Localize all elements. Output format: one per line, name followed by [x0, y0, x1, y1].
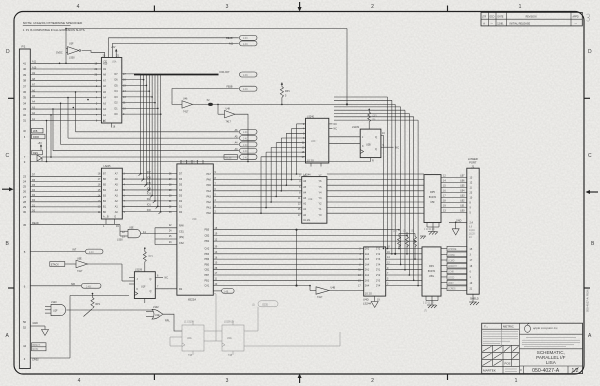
VIA select wires [155, 228, 177, 245]
ETACK buffer U5E 7417 [50, 258, 135, 282]
svg-text:050-4027-A REV A: 050-4027-A REV A [586, 287, 590, 312]
svg-text:44: 44 [23, 344, 27, 348]
bus drop wire 5 [334, 114, 409, 276]
IO0-IO7 flag [220, 70, 258, 77]
svg-text:7417: 7417 [317, 296, 323, 299]
svg-text:27: 27 [23, 195, 27, 199]
svg-text:2Y4: 2Y4 [376, 285, 381, 288]
svg-text:LS109 (3): LS109 (3) [224, 322, 234, 324]
svg-text:1G 2G: 1G 2G [365, 293, 372, 296]
svg-text:U2F: U2F [53, 310, 58, 313]
wire LB3 to J1 [441, 195, 473, 200]
svg-text:CB2: CB2 [205, 234, 210, 237]
buffer U46 7417 [182, 98, 395, 114]
flag LBSY [441, 280, 473, 285]
svg-text:2Y1: 2Y1 [376, 269, 381, 272]
svg-text:LOWER: LOWER [468, 157, 478, 161]
ROM output D6 wire [115, 75, 145, 180]
wire PB upper 1 [213, 235, 408, 237]
svg-text:2-4C: 2-4C [243, 38, 248, 40]
LS240 input tap wire 7 [261, 157, 305, 213]
svg-text:PA3: PA3 [207, 195, 212, 198]
svg-text:RP4: RP4 [429, 265, 434, 268]
svg-text:CS2: CS2 [179, 242, 184, 245]
svg-text:METRIC: METRIC [503, 325, 514, 329]
svg-text:NC: NC [396, 146, 400, 149]
svg-text:1G 2G: 1G 2G [303, 219, 310, 222]
svg-text:LCHK: LCHK [448, 272, 455, 274]
left/right zone ticks [8, 98, 590, 288]
svg-text:P1: P1 [22, 45, 26, 49]
wire top bus to U2B [66, 29, 347, 105]
svg-text:26: 26 [23, 190, 27, 194]
svg-text:INITIAL RELEASE: INITIAL RELEASE [510, 22, 531, 25]
svg-text:U1E: U1E [155, 314, 160, 317]
svg-text:SVDC: SVDC [56, 52, 63, 55]
svg-text:RPL: RPL [165, 320, 170, 323]
svg-text:29: 29 [23, 205, 27, 209]
wire PB lower 6 [213, 279, 363, 281]
wire LB5 to J1 [441, 185, 473, 190]
svg-text:CA2: CA2 [205, 248, 210, 251]
svg-text:2A3: 2A3 [365, 279, 370, 282]
svg-text:LB3: LB3 [460, 195, 465, 198]
wire PA4 [213, 190, 301, 192]
svg-text:LS109: LS109 [352, 126, 360, 129]
svg-text:32: 32 [23, 113, 27, 117]
svg-text:2FB: 2FB [33, 130, 38, 133]
svg-text:RP5: RP5 [430, 191, 435, 194]
microfilm label right edge [586, 287, 590, 312]
svg-text:LPARITY: LPARITY [448, 265, 458, 268]
ROM output D0 wire [115, 75, 162, 213]
svg-text:36: 36 [23, 90, 27, 94]
svg-text:A11: A11 [229, 43, 234, 46]
svg-text:U3E: U3E [129, 226, 134, 229]
svg-text:PA1: PA1 [207, 207, 212, 210]
svg-text:NC: NC [334, 123, 338, 126]
svg-text:IO0-IO7: IO0-IO7 [220, 70, 230, 74]
svg-text:R/W: R/W [179, 225, 184, 228]
PB vertical link [296, 229, 298, 287]
svg-text:MARTEK: MARTEK [483, 369, 497, 373]
svg-text:LS244: LS244 [363, 301, 372, 305]
wire PB lower 2 [213, 258, 363, 260]
svg-text:T1B: T1B [188, 355, 193, 357]
svg-text:LCRES: LCRES [448, 289, 456, 291]
gate U3F LS00 (top) [56, 29, 81, 65]
wire IO7 [122, 171, 177, 176]
svg-text:24: 24 [23, 180, 27, 184]
svg-text:LISA: LISA [546, 360, 557, 365]
VIA U3D 6522A [177, 160, 218, 302]
svg-text:PB7: PB7 [205, 274, 210, 277]
svg-text:A10: A10 [103, 62, 108, 65]
wire LD0 to RP5 [327, 212, 424, 214]
svg-text:1 10 11 20: 1 10 11 20 [424, 229, 435, 231]
wire PA1 [213, 207, 301, 209]
svg-text:52: 52 [23, 326, 27, 330]
wire U3F output to ROM CE [82, 51, 105, 58]
svg-text:14,16: 14,16 [469, 230, 475, 232]
svg-text:6522A: 6522A [188, 298, 196, 302]
stamp mark near rev table [587, 14, 590, 21]
svg-text:IO7: IO7 [147, 171, 152, 174]
svg-text:U5F: U5F [430, 201, 435, 204]
svg-text:2-4C: 2-4C [243, 145, 248, 147]
svg-text:(2F): (2F) [373, 116, 377, 118]
svg-text:LB2: LB2 [460, 200, 465, 203]
svg-text:2-4C: 2-4C [243, 151, 248, 153]
svg-text:2-4C: 2-4C [243, 138, 248, 140]
svg-text:Q: Q [150, 278, 152, 281]
svg-text:8X47Ω: 8X47Ω [429, 196, 437, 199]
svg-text:3: 3 [226, 4, 229, 10]
svg-text:REVISION: REVISION [526, 16, 537, 18]
chassis mark near RP6 [420, 236, 426, 239]
chassis ground under RP5 [427, 227, 439, 235]
wire PB lower 3 [213, 263, 363, 265]
wire PB lower 7 [213, 285, 310, 287]
svg-text:NC51: NC51 [33, 349, 40, 351]
wire U4D out 7 [386, 285, 422, 287]
svg-text:IO3: IO3 [147, 193, 152, 196]
P1 pin 3 wire [24, 160, 371, 164]
svg-text:CPΦ2: CPΦ2 [32, 359, 39, 362]
svg-text:D: D [6, 49, 10, 55]
svg-text:LS109: LS109 [135, 269, 143, 272]
svg-text:34: 34 [23, 101, 27, 105]
buffer U48 7417 [217, 104, 249, 163]
wire IO6 [122, 176, 177, 181]
zone numbers top [77, 4, 522, 10]
ROM U3A [95, 46, 122, 129]
svg-text:DIOR: DIOR [33, 136, 39, 139]
P1 pin 34 / address wire A4 [23, 101, 101, 106]
P1 CPO2 wire [24, 296, 129, 362]
svg-text:1A4: 1A4 [365, 263, 370, 266]
svg-text:apple computer inc.: apple computer inc. [533, 326, 558, 330]
svg-text:LTR: LTR [482, 16, 486, 18]
svg-text:LS20: LS20 [51, 301, 57, 304]
svg-text:U1F: U1F [141, 286, 146, 289]
wire IO5 [122, 182, 177, 187]
ferrite bead X2 [207, 99, 213, 106]
wire PB lower 0 [213, 248, 363, 250]
P1 boxed label DIOR [24, 134, 45, 139]
gate U1E LS02 [146, 306, 182, 331]
svg-text:(7): (7) [424, 311, 427, 313]
ROM output D2 wire [115, 75, 156, 202]
buffer U4D LS244 [358, 246, 390, 306]
svg-text:2: 2 [371, 378, 374, 384]
svg-text:U3A: U3A [112, 60, 117, 63]
svg-text:Q: Q [150, 290, 152, 293]
svg-text:(3): (3) [403, 231, 406, 233]
RES box [32, 150, 43, 161]
svg-text:28: 28 [23, 200, 27, 204]
svg-text:2A2: 2A2 [365, 274, 370, 277]
bus drop wire 7 [334, 120, 418, 286]
svg-text:IO6: IO6 [147, 176, 152, 179]
P1 pin 33 / address wire A3 [23, 106, 101, 111]
pull-up resistors RP6 [393, 231, 417, 260]
wire LD3 to RP5 [327, 195, 424, 197]
svg-text:DATE: DATE [498, 15, 504, 18]
svg-text:50: 50 [23, 320, 27, 324]
faint flip-flop U2G block 2 [222, 321, 244, 357]
svg-text:+5V: +5V [111, 46, 116, 49]
svg-text:PB5: PB5 [205, 229, 210, 232]
wire PA5 [213, 184, 301, 186]
revision table [481, 12, 582, 26]
P1 pin 32 / address wire A2 [23, 112, 101, 117]
wire U4D out 5 [386, 274, 422, 276]
svg-text:Q: Q [375, 136, 377, 139]
svg-text:IO0: IO0 [147, 209, 152, 212]
wire U4D out 0 [386, 248, 422, 250]
ROM output D4 wire [115, 75, 151, 191]
P1 pin 30 / data wire D0 [23, 209, 101, 214]
wire IO0 [122, 209, 177, 214]
svg-text:FB3B: FB3B [227, 86, 233, 89]
ground under U4D [371, 296, 380, 307]
svg-text:(RS): (RS) [179, 236, 184, 239]
svg-text:PA7: PA7 [207, 173, 212, 176]
svg-text:C: C [588, 153, 592, 159]
svg-text:11: 11 [143, 230, 146, 234]
wire PB lower 4 [213, 269, 363, 271]
svg-text:U2B: U2B [366, 144, 371, 147]
svg-text:2-3C: 2-3C [243, 89, 248, 91]
svg-text:NOTE: UNLESS OTHERWISE SPECIFI: NOTE: UNLESS OTHERWISE SPECIFIED [23, 21, 83, 25]
svg-text:2-4C: 2-4C [243, 157, 248, 159]
svg-text:1: 1 [519, 4, 522, 10]
LS240 input tap wire 3 [281, 138, 305, 191]
flip-flop U2B LS109 [329, 108, 399, 249]
svg-text:U4C: U4C [311, 141, 316, 143]
svg-text:4: 4 [78, 378, 81, 384]
svg-text:LBSY: LBSY [448, 283, 454, 285]
P1 pin 24 / data wire D6 [23, 179, 101, 184]
svg-text:1A3: 1A3 [365, 258, 370, 261]
resistor RP1 (top) [280, 82, 290, 105]
svg-text:PORT: PORT [469, 161, 477, 165]
svg-text:18,20: 18,20 [469, 234, 475, 236]
svg-text:45: 45 [23, 223, 27, 227]
svg-text:CE3D: CE3D [262, 304, 268, 306]
svg-text:PA5: PA5 [207, 184, 212, 187]
P1 pin 25 / data wire D5 [23, 184, 101, 189]
zone numbers bottom [78, 378, 518, 384]
svg-text:BRSVT: BRSVT [33, 345, 41, 347]
SHIELD label + chassis [469, 294, 479, 305]
svg-text:PB6: PB6 [205, 258, 210, 261]
svg-text:1A1: 1A1 [365, 248, 370, 251]
svg-text:PB0: PB0 [205, 263, 210, 266]
svg-text:© □: © □ [484, 326, 488, 329]
P1 pin 38 / address wire A8 [23, 78, 101, 83]
wire U4D out 6 [386, 279, 422, 281]
A5 flag [68, 135, 257, 140]
svg-text:A→B: A→B [103, 216, 109, 219]
svg-text:RES: RES [33, 152, 38, 155]
svg-text:U2G: U2G [187, 338, 192, 340]
svg-text:PB2: PB2 [205, 240, 210, 243]
svg-text:38: 38 [23, 79, 27, 83]
svg-text:(2F): (2F) [393, 231, 397, 233]
svg-text:U5G: U5G [429, 275, 434, 278]
flag LCHK [441, 269, 472, 274]
P1 pin 41 / address wire A11 [23, 61, 101, 66]
title block [482, 323, 583, 374]
svg-text:IO2: IO2 [147, 198, 152, 201]
svg-text:7417: 7417 [77, 270, 83, 273]
svg-text:26 27 28 29 35 34: 26 27 28 29 35 34 [180, 162, 199, 164]
svg-text:LORW: LORW [448, 255, 456, 257]
wire U4D out 3 [386, 263, 422, 265]
svg-text:7417: 7417 [183, 111, 189, 114]
svg-text:ETACK: ETACK [51, 264, 59, 267]
svg-text:POS: POS [505, 362, 511, 366]
wire IO3 [122, 193, 177, 198]
apple logo [525, 325, 531, 332]
faint flip-flop U2G block 1 [176, 321, 204, 357]
svg-text:1 10 11 20: 1 10 11 20 [423, 303, 434, 305]
svg-text:NC: NC [165, 277, 169, 280]
LS240 input tap wire 0 [297, 124, 306, 174]
svg-text:2A4: 2A4 [365, 285, 370, 288]
P1 INT wire and flag [24, 249, 103, 255]
LOWER PORT J1 connector [467, 157, 479, 294]
P1 boxed BRSVT/NC51 [23, 343, 46, 351]
wire LB1 to J1 [441, 205, 472, 210]
svg-text:3: 3 [226, 378, 229, 384]
GND wire to J1 [449, 219, 475, 239]
svg-text:SIR: SIR [71, 283, 75, 286]
svg-text:CS1: CS1 [179, 230, 184, 233]
bus merge ticks [139, 174, 161, 214]
svg-text:LS00: LS00 [69, 57, 75, 60]
wire LB0 to J1 [441, 210, 472, 215]
svg-text:RP1: RP1 [285, 90, 290, 93]
wire LD4 to RP5 [327, 190, 424, 192]
svg-text:050-4027-A: 050-4027-A [532, 368, 560, 374]
P1 pin 27 / data wire D3 [23, 194, 101, 199]
gate U3E LS00 select [117, 225, 155, 242]
P1 pin 28 / data wire D2 [23, 199, 101, 204]
P1 pin 31 / address wire A1 [23, 118, 101, 123]
svg-text:2-4C: 2-4C [243, 44, 248, 46]
wire PB upper 0 [213, 229, 400, 231]
LS240 input tap wire 2 [286, 133, 305, 185]
wire LD1 to RP5 [327, 207, 424, 209]
wire U4D out 4 [386, 269, 422, 271]
bus drop wire 6 [334, 117, 414, 280]
wire LB2 to J1 [441, 200, 472, 205]
svg-text:LS00: LS00 [117, 239, 123, 242]
svg-text:37: 37 [23, 84, 27, 88]
svg-text:2-4C: 2-4C [243, 132, 248, 134]
ROM output D3 wire [115, 75, 153, 197]
svg-text:35: 35 [23, 96, 27, 100]
svg-text:RP1: RP1 [96, 303, 101, 306]
P1 pin 23 / data wire D7 [23, 174, 101, 179]
svg-text:(3): (3) [411, 231, 414, 233]
wire PB lower 5 [213, 274, 363, 276]
svg-text:LCMD: LCMD [448, 260, 455, 262]
buffer U4B 7417 [309, 285, 364, 299]
faint interconnect wires [170, 294, 340, 346]
fold arrows [2, 187, 14, 191]
svg-text:2-4B: 2-4B [86, 286, 91, 288]
P1 pin 29 / data wire D1 [23, 204, 101, 209]
wire LD2 to RP5 [327, 201, 424, 203]
svg-text:LB1: LB1 [460, 205, 465, 208]
wire U46 line corner down [346, 104, 396, 255]
svg-text:LPRIME: LPRIME [448, 249, 457, 251]
svg-text:1Y3: 1Y3 [376, 258, 381, 261]
svg-text:40: 40 [23, 67, 27, 71]
svg-text:U4E: U4E [308, 199, 313, 201]
P1 GND pin and ground [23, 320, 49, 336]
A4 flag [61, 142, 258, 147]
svg-text:7417: 7417 [226, 120, 232, 123]
ROM output D1 wire [115, 75, 159, 208]
FB3B flag [227, 86, 258, 92]
wire PA3 [213, 195, 301, 197]
wire PA7 [213, 173, 301, 175]
zone letters left [6, 49, 11, 339]
wire FB3B to U46 input [172, 89, 239, 105]
flip-flop U1F LS109 [129, 247, 177, 303]
svg-text:2Y3: 2Y3 [376, 279, 381, 282]
wire LD6 to RP5 [327, 179, 424, 181]
svg-text:1Y2: 1Y2 [376, 253, 381, 256]
svg-text:LB6: LB6 [460, 180, 465, 183]
wire IO1 [122, 204, 177, 209]
flag LORW [441, 252, 472, 257]
P1 pin 36 / address wire A6 [23, 89, 101, 94]
svg-text:PA0: PA0 [207, 212, 212, 215]
svg-text:2A1: 2A1 [365, 269, 370, 272]
svg-text:RP1: RP1 [149, 256, 154, 258]
svg-text:U46: U46 [183, 98, 188, 101]
LS240 input tap wire 6 [266, 152, 305, 208]
zone letters right [588, 49, 595, 339]
P1 pin 35 / address wire A5 [23, 95, 101, 100]
P1 pin 7 [24, 155, 26, 159]
ROM output D5 wire [115, 75, 148, 186]
P1 pin 40 / address wire A10 [23, 66, 101, 71]
bus drop wire 0 [334, 97, 388, 249]
A6 flag [76, 129, 258, 134]
buffer U3B LS245 [98, 165, 126, 228]
flag LCMD [441, 258, 473, 263]
faint flag (1) CE3D [252, 301, 278, 307]
LS240 input tap wire 4 [276, 143, 305, 197]
wire U4D out 1 [386, 253, 422, 255]
wire LD7 to RP5 [327, 173, 424, 175]
svg-text:U5E: U5E [77, 258, 82, 261]
flag LCRES [441, 286, 473, 291]
svg-text:12/81: 12/81 [497, 22, 504, 25]
svg-text:1G 2G: 1G 2G [307, 160, 314, 163]
svg-text:PB3: PB3 [205, 253, 210, 256]
address tap wires A2/A1 [47, 115, 52, 162]
svg-text:2-4C: 2-4C [89, 252, 94, 254]
svg-text:31: 31 [23, 119, 27, 123]
